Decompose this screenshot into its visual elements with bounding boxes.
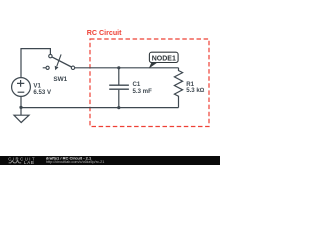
svg-text:5.3 kΩ: 5.3 kΩ (186, 87, 205, 94)
switch SW1 (43, 54, 75, 70)
wire: bottom rail (21, 107, 179, 109)
wire: V1 top to switch SW1 (21, 49, 50, 78)
footer logo waveform (9, 161, 22, 163)
svg-text:SW1: SW1 (53, 76, 67, 83)
resistor R1 (174, 68, 182, 108)
capacitor C1 bottom lead (118, 90, 120, 108)
capacitor C1 top lead (118, 68, 120, 85)
switch SW1 lever (52, 57, 72, 67)
svg-text:http://circuitlab.com/c/c6kz5p: http://circuitlab.com/c/c6kz5p/rc-21 (46, 160, 104, 164)
svg-text:LAB: LAB (24, 160, 35, 165)
svg-text:6.53 V: 6.53 V (33, 89, 52, 96)
ground (14, 108, 29, 123)
svg-text:RC Circuit: RC Circuit (87, 29, 122, 37)
capacitor C1 plates (109, 84, 129, 86)
footer bar (0, 156, 220, 165)
node flag NODE1 pointer (149, 62, 158, 68)
wire: V1 bottom lead (20, 96, 22, 107)
svg-text:C1: C1 (133, 81, 141, 88)
junction: V1 bottom node (19, 106, 22, 109)
switch SW1 terminal A (top, from V1) (49, 54, 52, 57)
switch SW1 actuation arrow (57, 54, 61, 66)
svg-text:5.3 mF: 5.3 mF (133, 88, 153, 95)
switch SW1 terminal B (common, right) (71, 66, 74, 69)
annotation box: RC Circuit (red dashed rectangle) (90, 39, 209, 127)
label C1 5.3 mF (133, 81, 153, 95)
label V1 6.53 V (33, 82, 52, 96)
junction: C1 top node (117, 66, 120, 69)
voltage source V1 (12, 78, 31, 97)
node flag NODE1 box (149, 52, 178, 62)
svg-text:NODE1: NODE1 (152, 55, 176, 62)
wire: switch SW1 to node (top rail) (75, 67, 179, 69)
label R1 5.3 kOhm (186, 81, 205, 94)
junction: C1 bottom node (117, 106, 120, 109)
switch SW1 terminal C (open throw, left) with stub (43, 67, 46, 69)
capacitor C1 (109, 68, 129, 108)
